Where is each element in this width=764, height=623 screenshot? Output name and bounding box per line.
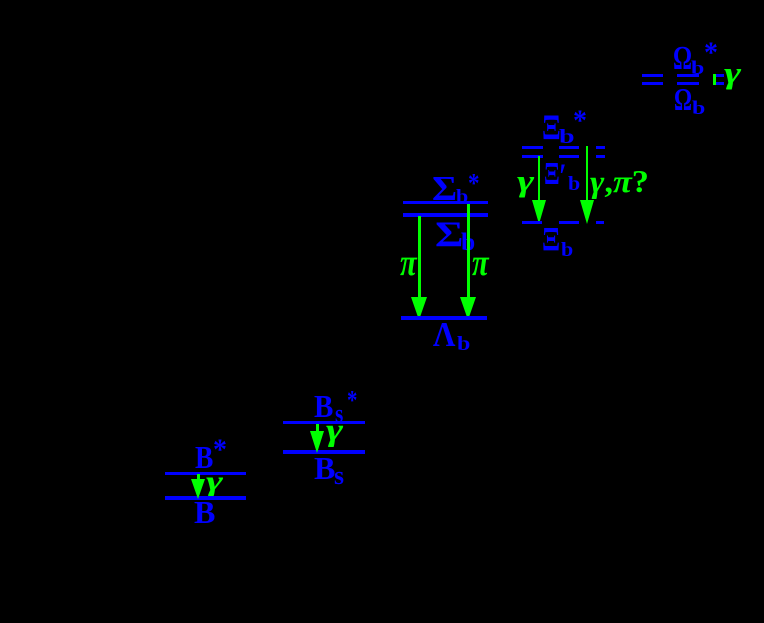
level line Omega_b dash 1 <box>642 82 663 85</box>
subscript b of Sigma_b <box>461 229 475 255</box>
prime of Xi_b' <box>559 159 567 195</box>
superscript * of B* <box>213 435 227 465</box>
level line Xi_b dash 1 <box>522 221 542 224</box>
level line Xi_b' dash 2 <box>559 155 579 158</box>
level line Xi_b dash 2 <box>559 221 579 224</box>
subscript b of Xi_b* <box>559 127 575 147</box>
label Xi of Xi_b <box>542 223 560 257</box>
label Lambda of Lambda_b <box>433 318 455 353</box>
arrow pi: Sigma_b* to Lambda_b <box>467 204 470 297</box>
subscript s of Bs <box>334 463 344 489</box>
level line B* <box>165 472 246 475</box>
superscript * of Xi_b* <box>573 106 587 136</box>
label pi (right arrow) <box>472 244 489 282</box>
level line Xi_b' dash 3 <box>596 155 605 158</box>
subscript b of Omega_b <box>692 100 705 119</box>
superscript * of Omega_b* <box>704 38 718 68</box>
label Omega of Omega_b* <box>673 42 692 76</box>
arrow gamma: Bs* to Bs <box>316 424 319 431</box>
level line Xi_b* dash 1 <box>522 146 543 149</box>
arrow gamma,pi?: Xi_b* to Xi_b <box>586 146 588 200</box>
label Xi of Xi_b' <box>544 157 560 189</box>
superscript * of Sigma_b* <box>468 169 480 197</box>
label Xi of Xi_b* <box>542 109 561 145</box>
level line Omega_b* dash 3 <box>716 74 724 77</box>
label gamma,pi? (right Xi arrow) <box>590 166 649 197</box>
level line Bs* <box>283 421 365 424</box>
arrow gamma: Xi_b' to Xi_b <box>538 156 540 200</box>
level line Omega_b* dash 1 <box>642 74 663 77</box>
label gamma (Bs* to Bs) <box>326 414 343 446</box>
label Sigma of Sigma_b* <box>432 172 457 207</box>
level line Omega_b* dash 2 <box>677 74 699 77</box>
label gamma (B* to B) <box>206 467 223 495</box>
subscript b of Xi_b <box>561 240 573 260</box>
label B of B* <box>195 441 213 473</box>
arrow gamma: B* to B <box>197 474 200 479</box>
label pi (left arrow) <box>400 244 417 282</box>
level line Xi_b' dash 1 <box>522 155 543 158</box>
superscript * of Bs* <box>347 386 357 414</box>
level line Xi_b* dash 3 <box>596 146 605 149</box>
level line Omega_b dash 3 <box>716 82 724 85</box>
label Sigma of Sigma_b <box>435 216 463 252</box>
level line Xi_b* dash 2 <box>559 146 579 149</box>
label gamma (Omega arrow) <box>724 58 741 89</box>
level line Omega_b dash 2 <box>677 82 699 85</box>
label Omega of Omega_b <box>674 84 692 115</box>
label B <box>194 496 215 528</box>
level line Xi_b dash 3 <box>596 221 604 224</box>
label B of Bs* <box>314 390 333 422</box>
subscript s of Bs* <box>335 401 343 427</box>
arrow gamma: Omega_b* to Omega_b (short bar) <box>713 74 716 85</box>
label B of Bs <box>314 452 335 484</box>
level line Sigma_b <box>403 213 488 217</box>
subscript b of Omega_b* <box>691 60 704 79</box>
level line Bs <box>283 450 365 454</box>
subscript b of Lambda_b <box>457 334 470 354</box>
arrow pi: Sigma_b to Lambda_b <box>418 216 421 297</box>
level line Lambda_b <box>401 316 487 320</box>
subscript b of Sigma_b* <box>456 187 468 207</box>
level line Sigma_b* <box>403 201 488 204</box>
level line B <box>165 496 246 500</box>
label gamma (left Xi arrow) <box>517 166 534 197</box>
subscript b of Xi_b' <box>568 174 580 194</box>
